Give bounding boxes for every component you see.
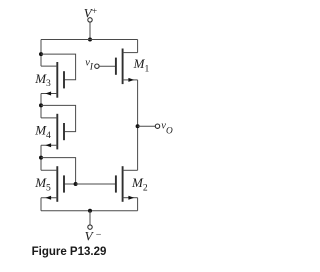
svg-text:Figure P13.29: Figure P13.29 bbox=[32, 246, 107, 258]
wire vO tap bbox=[138, 125, 156, 127]
label M3 bbox=[34, 71, 51, 89]
node V- rail junction bbox=[88, 209, 92, 213]
power terminal V+ bbox=[84, 6, 97, 22]
power terminal V- bbox=[85, 225, 102, 244]
wire M3 source to M4 drain bbox=[40, 94, 42, 118]
wire V- stem bbox=[89, 211, 91, 225]
transistor M5 bbox=[41, 166, 64, 202]
node M5 gate junction bbox=[74, 182, 78, 186]
transistor M2 bbox=[116, 166, 138, 202]
wire M5 source to bottom rail bbox=[40, 198, 42, 211]
wire top rail bbox=[41, 39, 138, 41]
wire M2 source to bottom rail bbox=[137, 198, 139, 211]
wire M4 gate loop bbox=[41, 105, 76, 131]
node M3 gate-drain junction bbox=[39, 52, 43, 56]
wire V+ stem bbox=[89, 22, 91, 39]
label M1 bbox=[133, 56, 150, 74]
transistor M1 bbox=[116, 49, 138, 85]
wire vI to M1 gate bbox=[99, 65, 116, 67]
wire M5 gate to M2 gate bbox=[76, 183, 116, 185]
wire M1 source to M2 drain bbox=[137, 80, 139, 170]
node M4 gate-drain junction bbox=[39, 103, 43, 107]
wire M4 source to M5 drain bbox=[40, 145, 42, 170]
label M2 bbox=[131, 175, 148, 193]
wire left rail to M3 drain bbox=[40, 40, 42, 67]
transistor M4 bbox=[41, 114, 64, 150]
wire bottom rail bbox=[41, 210, 138, 212]
node vO junction bbox=[136, 124, 140, 128]
output terminal vO bbox=[155, 121, 173, 137]
wire M3 gate loop bbox=[41, 54, 76, 80]
label M4 bbox=[34, 123, 51, 141]
label M5 bbox=[34, 175, 51, 193]
caption Figure P13.29 bbox=[32, 246, 107, 258]
wire rail to M1 drain bbox=[137, 40, 139, 53]
node V+ rail junction bbox=[88, 38, 92, 42]
node M5 gate-drain junction bbox=[39, 156, 43, 160]
transistor M3 bbox=[41, 62, 64, 98]
input terminal vI bbox=[85, 58, 99, 72]
wire M5 gate loop bbox=[41, 158, 76, 184]
